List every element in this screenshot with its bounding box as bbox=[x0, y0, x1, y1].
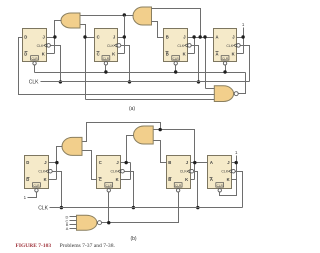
AND gate G2 (a) bbox=[133, 7, 152, 25]
flip-flop D (a) bbox=[23, 29, 51, 66]
node: junction G2 output / FF C J-K bbox=[123, 13, 126, 16]
wire: drop to FF C J/K bbox=[124, 16, 126, 54]
svg-text:CLK: CLK bbox=[226, 44, 233, 48]
wire: G2 output line to G1 input bbox=[81, 15, 134, 17]
svg-text:D: D bbox=[26, 160, 29, 165]
svg-text:FIGURE 7-103: FIGURE 7-103 bbox=[16, 243, 52, 249]
wire: 1 to FF D CLR (b) bbox=[28, 193, 37, 198]
node: FF C J junction (b) bbox=[125, 161, 128, 164]
svg-text:C: C bbox=[97, 35, 100, 40]
svg-text:K: K bbox=[185, 177, 188, 182]
svg-text:CLK: CLK bbox=[38, 205, 48, 211]
wire: NAND lower input line from FF C Q bbox=[86, 99, 215, 101]
flip-flop C (b) bbox=[97, 156, 125, 193]
wire: FF B Q to G2 lower input bbox=[152, 22, 164, 38]
svg-text:(a): (a) bbox=[129, 106, 135, 112]
node: NAND output junction (b) bbox=[107, 221, 110, 224]
svg-text:K: K bbox=[227, 177, 230, 182]
svg-text:A: A bbox=[216, 35, 219, 40]
wire: FF B K line (b) bbox=[191, 179, 195, 181]
wire: FF C CLK to clock bus bbox=[121, 46, 130, 82]
svg-text:B: B bbox=[166, 51, 169, 56]
node: FF B J junctions bbox=[192, 35, 195, 38]
wire: FF C Q drop to NAND lower input bbox=[85, 38, 87, 100]
wire: FF D K line bbox=[47, 53, 55, 55]
flip-flop C (a) bbox=[95, 29, 121, 66]
node: clock bus junction D (b) bbox=[60, 206, 63, 209]
svg-text:K: K bbox=[44, 177, 47, 182]
wire: clock bus (a) bbox=[41, 81, 250, 83]
wire: FF D CLK to clock bus bbox=[51, 46, 61, 82]
node: CLR bus junctions bbox=[104, 70, 107, 73]
svg-text:A: A bbox=[66, 226, 69, 231]
AND gate G4 (b) bbox=[62, 137, 82, 155]
node: FF B J junction (b) bbox=[193, 161, 196, 164]
svg-text:CLK: CLK bbox=[107, 44, 114, 48]
wire: G5 output to FF C J (b) bbox=[127, 136, 134, 163]
AND gate G1 (a) bbox=[61, 13, 80, 28]
wire: FF A J line bbox=[237, 37, 244, 39]
wire: FF A J line (b) bbox=[232, 162, 237, 164]
wire: G5 upper input line to FF B J (b) bbox=[154, 130, 195, 163]
svg-text:CLR: CLR bbox=[173, 56, 180, 60]
wire: FF C CLR riser (b) bbox=[108, 193, 110, 223]
wire: FF B Q to G5 lower input bbox=[154, 141, 167, 163]
node: clock bus junction B (b) bbox=[196, 206, 199, 209]
wire: 1 to FF A J/K bbox=[243, 28, 245, 54]
wire: G4 output to FF D J/K (b) bbox=[57, 147, 63, 180]
svg-text:A: A bbox=[216, 51, 219, 56]
wire: FF A CLR drop bbox=[225, 66, 227, 73]
node: clock bus junction C (b) bbox=[132, 206, 135, 209]
svg-text:Problems 7-37 and 7-38.: Problems 7-37 and 7-38. bbox=[60, 243, 116, 249]
wire: FF D J line (b) bbox=[49, 162, 57, 164]
svg-text:D: D bbox=[24, 51, 27, 56]
node: clock bus junction C (a) bbox=[128, 80, 131, 83]
node: G5 upper input junction bbox=[159, 128, 162, 131]
wire: FF D K line (b) bbox=[49, 179, 57, 181]
wire: FF A CLK to clock bus bbox=[241, 46, 250, 82]
node: clock bus junction B (a) bbox=[197, 80, 200, 83]
flip-flop B (a) bbox=[164, 29, 192, 66]
wire: FF C J-K tie (b) bbox=[130, 163, 132, 180]
wire: NAND upper input from FF B bbox=[206, 88, 215, 90]
node: FF D J junction bbox=[53, 35, 56, 38]
wire: FF C Q to G1 lower input bbox=[81, 25, 95, 38]
wire: FF C K line bbox=[118, 53, 125, 55]
wire: 1 to FF A J/K and CLR (b) bbox=[220, 156, 237, 196]
wire: long A line to G4 upper input bbox=[83, 123, 161, 142]
svg-text:K: K bbox=[232, 51, 235, 56]
wire: FF D CLK to clock bus (b) bbox=[53, 172, 62, 208]
svg-text:D: D bbox=[24, 35, 27, 40]
wire: CLR bus (a) bbox=[35, 72, 246, 74]
svg-text:A: A bbox=[210, 160, 213, 165]
wire: FF D Q feedback to NAND middle input bbox=[19, 38, 215, 95]
wire: FF C J line bbox=[118, 37, 125, 39]
wire: clock bus (b) bbox=[50, 207, 243, 209]
svg-text:CLR: CLR bbox=[31, 56, 38, 60]
wire: G2 upper input from FF B J line bbox=[152, 9, 201, 38]
node: FF A J junction (b) bbox=[235, 161, 238, 164]
wire: FF C CLK to clock bus (b) bbox=[125, 172, 134, 208]
wire: FF C CLR drop bbox=[105, 66, 107, 73]
svg-text:(b): (b) bbox=[130, 236, 136, 242]
wire: FF B CLK to clock bus bbox=[192, 46, 199, 82]
wire: FF D CLR drop bbox=[34, 66, 36, 73]
svg-text:K: K bbox=[112, 51, 115, 56]
wire: FF C K line (b) bbox=[121, 179, 131, 181]
NAND gate G3 (a) bbox=[214, 86, 238, 102]
wire: FF B J drop to NAND input bbox=[205, 38, 207, 89]
flip-flop A (b) bbox=[208, 156, 236, 193]
wire: G1 output to FF D J/K bbox=[55, 21, 62, 54]
node: FF D J junction (b) bbox=[55, 161, 58, 164]
wire: FF B J line to FF A Q bbox=[188, 37, 214, 39]
wire: FF C Qbar to G4 lower input bbox=[83, 151, 97, 180]
svg-text:C: C bbox=[97, 51, 100, 56]
svg-text:CLR: CLR bbox=[175, 183, 182, 187]
wire: FF C J line (b) bbox=[121, 162, 131, 164]
wire: FF B J-K tie bbox=[194, 38, 196, 54]
svg-text:C: C bbox=[99, 160, 102, 165]
svg-text:CLK: CLK bbox=[37, 44, 44, 48]
svg-text:K: K bbox=[116, 177, 119, 182]
wire: FF A CLK to clock bus (b) bbox=[236, 172, 243, 208]
wire: FF B CLK to clock bus (b) bbox=[194, 172, 198, 208]
svg-text:CLK: CLK bbox=[177, 44, 184, 48]
svg-text:CLR: CLR bbox=[33, 183, 40, 187]
svg-text:CLK: CLK bbox=[38, 170, 45, 174]
svg-text:B: B bbox=[168, 160, 171, 165]
wire: FF B J-K tie (b) bbox=[194, 163, 196, 180]
svg-text:CLK: CLK bbox=[110, 170, 117, 174]
svg-text:CLK: CLK bbox=[180, 170, 187, 174]
flip-flop B (b) bbox=[167, 156, 194, 193]
flip-flop D (b) bbox=[25, 156, 53, 193]
svg-text:CLR: CLR bbox=[103, 56, 110, 60]
wire: FF D J line bbox=[47, 37, 55, 39]
wire: FF B CLR drop bbox=[175, 66, 177, 73]
NAND gate G6 (b) bbox=[77, 215, 102, 230]
svg-text:CLR: CLR bbox=[106, 183, 113, 187]
node: FF C J junction bbox=[123, 35, 126, 38]
svg-text:K: K bbox=[183, 51, 186, 56]
wire: NAND output to CLR bus bbox=[239, 73, 246, 94]
svg-text:B: B bbox=[166, 35, 169, 40]
node: FF A J junction bbox=[241, 35, 244, 38]
wire: FF A K line bbox=[237, 53, 244, 55]
svg-text:CLK: CLK bbox=[221, 170, 228, 174]
wire: NAND (b) output line bbox=[102, 193, 179, 223]
wire: FF B K line bbox=[188, 53, 195, 55]
wire: FF A K line (b) bbox=[232, 179, 237, 181]
flip-flop A (a) bbox=[214, 29, 241, 66]
svg-text:CLR: CLR bbox=[217, 183, 224, 187]
svg-text:K: K bbox=[42, 51, 45, 56]
svg-text:CLK: CLK bbox=[29, 80, 39, 86]
svg-text:CLR: CLR bbox=[222, 56, 229, 60]
node: clock bus junction D (a) bbox=[59, 80, 62, 83]
AND gate G5 (b) bbox=[134, 126, 154, 144]
node: FF C Q junction bbox=[83, 35, 86, 38]
wire: FF B J line to FF A Q (b) bbox=[191, 162, 208, 164]
